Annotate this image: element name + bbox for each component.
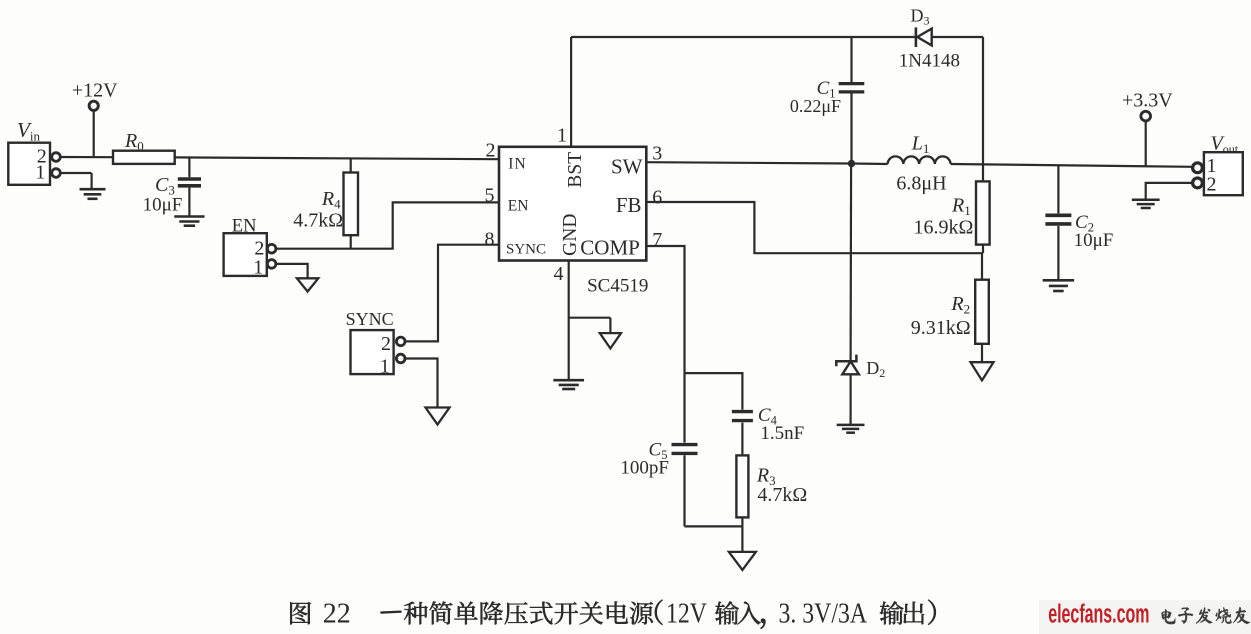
svg-text:100pF: 100pF	[620, 457, 669, 478]
svg-text:4.7kΩ: 4.7kΩ	[293, 210, 343, 232]
svg-text:D3: D3	[911, 6, 930, 28]
svg-text:EN: EN	[508, 198, 529, 215]
svg-text:+3.3V: +3.3V	[1122, 90, 1173, 112]
svg-text:SYNC: SYNC	[506, 241, 546, 257]
svg-text:2: 2	[381, 333, 391, 355]
svg-text:FB: FB	[616, 193, 642, 217]
svg-text:L1: L1	[911, 132, 930, 156]
svg-text:IN: IN	[508, 155, 527, 172]
svg-text:9.31kΩ: 9.31kΩ	[911, 317, 971, 339]
svg-text:SW: SW	[611, 154, 643, 178]
svg-text:8: 8	[485, 229, 495, 251]
svg-text:GND: GND	[560, 214, 581, 256]
svg-text:3. 3V/3A: 3. 3V/3A	[779, 598, 868, 629]
svg-text:5: 5	[485, 184, 495, 206]
svg-text:R1: R1	[951, 195, 971, 219]
svg-text:R4: R4	[321, 188, 341, 212]
svg-text:COMP: COMP	[580, 235, 640, 259]
svg-text:BST: BST	[565, 152, 586, 188]
svg-text:10μF: 10μF	[1074, 230, 1114, 251]
svg-text:16.9kΩ: 16.9kΩ	[914, 217, 974, 239]
svg-text:SYNC: SYNC	[346, 309, 394, 329]
svg-text:D2: D2	[866, 358, 885, 380]
svg-text:1.5nF: 1.5nF	[760, 423, 804, 444]
svg-text:3: 3	[652, 142, 662, 164]
svg-text:1: 1	[35, 162, 45, 184]
svg-text:4: 4	[554, 263, 564, 285]
svg-text:2: 2	[1207, 174, 1217, 196]
svg-text:Vin: Vin	[17, 118, 40, 144]
svg-text:12V: 12V	[666, 598, 707, 629]
svg-text:R2: R2	[950, 293, 970, 317]
svg-text:R0: R0	[124, 130, 144, 154]
svg-text:1: 1	[380, 355, 390, 377]
svg-text:2: 2	[486, 140, 496, 162]
svg-text:1: 1	[557, 125, 567, 147]
svg-text:6: 6	[652, 186, 662, 208]
svg-text:SC4519: SC4519	[587, 275, 648, 296]
svg-text:7: 7	[652, 229, 662, 251]
svg-text:10μF: 10μF	[143, 194, 183, 215]
svg-text:1N4148: 1N4148	[899, 51, 960, 72]
svg-text:22: 22	[323, 599, 351, 630]
svg-text:elecfans.com: elecfans.com	[1048, 598, 1149, 628]
svg-text:Vout: Vout	[1211, 133, 1239, 157]
svg-text:EN: EN	[232, 217, 257, 237]
svg-text:0.22μF: 0.22μF	[790, 96, 841, 116]
svg-text:+12V: +12V	[72, 79, 118, 101]
svg-text:6.8μH: 6.8μH	[896, 173, 946, 195]
svg-text:4.7kΩ: 4.7kΩ	[757, 484, 807, 506]
svg-text:1: 1	[253, 257, 263, 279]
